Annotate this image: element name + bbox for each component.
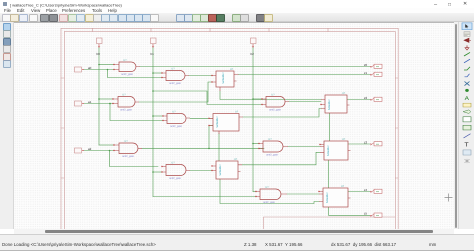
svg-text:a0: a0 [88,66,92,70]
wire a1 drop to U4 [110,104,163,121]
svg-text:U?: U? [271,94,275,97]
and gate U7 [261,94,289,112]
svg-text:fulladder: fulladder [326,145,330,156]
svg-text:U?: U? [171,68,175,71]
wire b2 to U8 input [253,143,259,145]
svg-text:and2_gate: and2_gate [120,109,132,112]
svg-text:and2_gate: and2_gate [266,154,278,157]
worksheet page frame outer border [61,28,398,251]
and gate U6 [161,162,190,181]
svg-text:U?: U? [265,186,269,189]
wire b2 to U7 input [253,98,262,100]
input port b0 [97,38,103,56]
and gate U2 [161,68,189,86]
mouse crosshair cursor [445,194,453,202]
wire U1 output to port z0 [140,66,370,68]
svg-text:and2_gate: and2_gate [269,109,281,112]
output port z4 [364,188,382,194]
svg-text:U?: U? [235,111,239,114]
wire b0 to U3 input [99,98,113,100]
wire U14 sum to port z4 [348,191,370,193]
wire U11 sum to U13 [242,152,320,165]
wire b1 to U4 input [153,115,163,117]
output port z1 [364,71,382,77]
svg-text:and2_gate: and2_gate [263,201,275,204]
input port b1 [151,38,157,56]
wire U7 output to U12 [289,101,321,103]
wire U5 output long run to U8 lower input [142,147,264,149]
wire a0 drop to U2 [108,70,163,78]
output port z5 [364,212,382,218]
menu bar [0,8,474,13]
wire U15 carry to U11 top pin [218,134,220,162]
canvas [14,22,454,230]
title bar [0,0,474,8]
wire U11 carry to U14 [220,179,319,204]
svg-text:and2_gate: and2_gate [121,73,133,76]
wire net a2 from port [84,150,114,152]
wire U10 sum to port z1 [239,74,371,76]
svg-text:b2: b2 [251,52,255,56]
svg-text:a2: a2 [88,147,92,151]
wire net a1 from port [84,103,113,105]
svg-text:T: T [464,142,469,148]
svg-text:U?: U? [234,158,238,161]
wire U9 output to U14 [287,193,319,195]
svg-text:halfadder: halfadder [218,164,222,176]
status bar [0,234,474,251]
svg-text:a1: a1 [88,100,92,104]
full adder U13 [319,138,350,160]
wire b1 to U2 input [153,72,162,74]
half adder U15 [208,111,243,135]
output port z0 [364,63,382,69]
wire b2 to U9 input [253,191,256,193]
and gate U8 [258,138,288,157]
wire b0 to U1 input [99,64,114,66]
and gate U4 [162,111,190,129]
wire U13 sum to port z3 [348,143,370,145]
svg-text:U?: U? [122,94,126,97]
svg-text:U?: U? [171,162,175,165]
half adder U11 [211,158,242,179]
svg-text:z3: z3 [364,140,368,144]
half adder U10 [211,68,238,91]
svg-text:fulladder: fulladder [327,99,331,110]
right toolbar [458,22,474,230]
full adder U12 [320,92,349,113]
wire net b1 vertical [152,47,154,197]
svg-text:halfadder: halfadder [221,72,225,84]
svg-text:U?: U? [124,140,128,143]
wire U10 carry to U12 [220,91,321,100]
wire net b2 vertical [252,47,254,192]
svg-text:U?: U? [342,92,346,95]
svg-text:U?: U? [342,138,346,141]
output port z2 [364,96,382,102]
svg-text:and2_gate: and2_gate [169,82,181,85]
frame section tick marks right [395,78,398,178]
wire U8 output to U13 [288,146,320,148]
wire U3 output to U10 [139,82,212,102]
output port z3 [364,140,382,146]
svg-text:fulladder: fulladder [325,192,329,203]
and gate U5 [113,140,142,158]
input port a2 [75,147,92,153]
wire U14 carry to port z5 [329,207,371,215]
frame section tick marks left [61,78,64,178]
svg-text:z5: z5 [364,212,368,216]
svg-text:U?: U? [341,185,345,188]
svg-text:z0: z0 [364,63,368,67]
full adder U14 [318,185,350,207]
wire U13 carry to U14 [328,160,330,188]
input port a0 [75,66,92,72]
wire to U9 lower input [153,196,256,198]
svg-text:halfadder: halfadder [215,116,219,128]
title block outline [264,217,396,230]
svg-text:z4: z4 [364,188,368,192]
and gate U1 [113,59,140,76]
svg-text:U?: U? [123,59,127,62]
wire riser to U15 input [209,126,213,149]
wire net b0 vertical [98,47,100,145]
svg-text:z1: z1 [364,71,368,75]
svg-text:A: A [465,95,470,101]
input port b2 [251,38,257,56]
svg-text:and2_gate: and2_gate [122,155,134,158]
wire U6 output to U11 [190,170,212,172]
wire b0 to U5 input [99,144,114,146]
wire a2 drop to U6 [110,151,159,167]
wire net a0 from port [84,69,114,71]
svg-text:z2: z2 [364,96,368,100]
svg-text:b0: b0 [97,52,101,56]
junction dots [98,64,254,173]
and gate U3 [112,94,139,112]
input port a1 [75,100,92,106]
wire U2 output to U10 [189,75,212,77]
wire U4 output to U15 [190,117,213,119]
svg-text:b1: b1 [151,52,155,56]
wire U12 carry to U13 [329,113,331,141]
left toolbar [0,22,14,230]
top toolbar [0,13,474,22]
wire b1 to U6 input [153,171,162,173]
svg-text:U?: U? [230,68,234,71]
svg-text:U?: U? [268,138,272,141]
wire U15 sum to U12 [243,109,321,118]
worksheet page frame inner border [64,32,395,251]
svg-text:U?: U? [172,111,176,114]
svg-text:and2_gate: and2_gate [169,177,181,180]
and gate U9 [255,186,287,204]
svg-text:and2_gate: and2_gate [170,125,182,128]
wire U12 sum to port z2 [347,99,370,101]
wire b1 branch to U7 lower input [153,91,262,105]
frame section tick marks top [93,28,329,31]
